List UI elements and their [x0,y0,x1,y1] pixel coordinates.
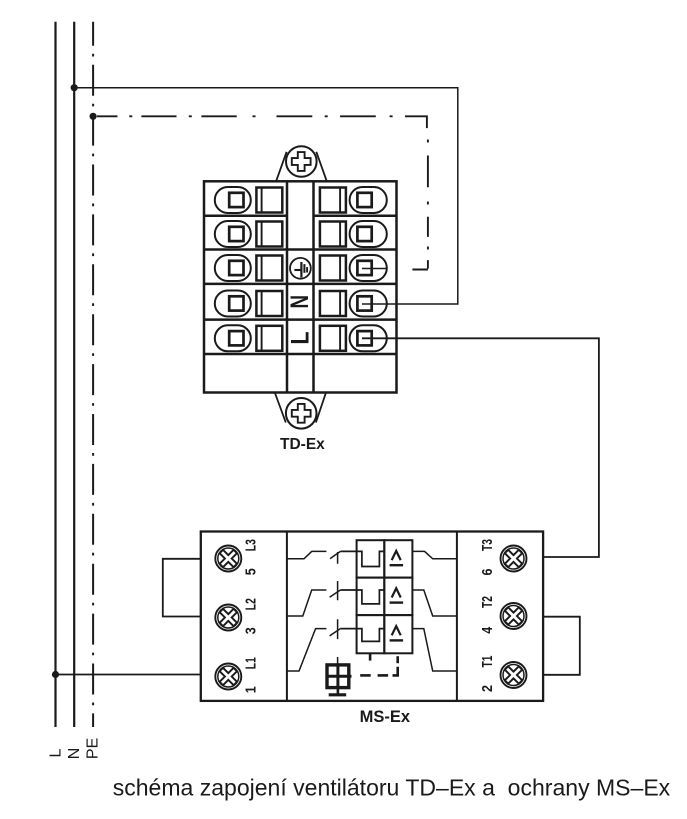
svg-text:1: 1 [242,686,259,693]
svg-text:4: 4 [479,626,496,634]
svg-text:N: N [66,748,83,760]
MS-Ex test button [327,665,352,695]
MS-Ex pole 1 wire in [287,551,327,558]
TD-Ex terminal row 1 right [320,187,387,213]
MS-Ex screw terminal 6 / T3 [499,544,527,572]
svg-text:L: L [48,748,65,757]
junction node on PE [90,113,97,120]
TD-Ex terminal row 4 right [320,291,387,317]
MS-Ex screw terminal 4 / T2 [499,602,527,630]
TD-Ex row dividers [204,216,397,354]
TD-Ex terminal row 2 left [215,221,282,247]
jumper L3-L2 [163,559,201,617]
TD-Ex earth terminal symbol [290,258,311,279]
wire PE to TD-Ex earth terminal (dash-dot) [97,115,428,269]
MS-Ex screw terminal 3 / L2 [214,603,242,631]
overload symbol 2 [390,588,404,602]
wire TD-Ex terminal L to MS-Ex terminal T3 [362,338,599,557]
MS-Ex overload release box 3 [384,615,412,653]
svg-text:PE: PE [85,738,102,759]
MS-Ex contact blade 3 [330,629,341,636]
MS-Ex thermal element box 3 [357,615,385,653]
MS-Ex thermal element 3 (U) [340,629,384,642]
TD-Ex terminal row 2 right [320,221,387,247]
TD-Ex terminal row 4 left [215,291,282,317]
TD-Ex terminal row 3 left [215,255,282,281]
MS-Ex screw terminal 2 / T1 [499,661,527,689]
MS-Ex section dividers [287,532,457,701]
motor protector MS-Ex outline [201,532,543,701]
TD-Ex terminal row 5 left [215,325,282,351]
MS-Ex pole 2 wire out [412,590,457,616]
supply line PE (dash-dot) [92,22,94,727]
svg-text:5: 5 [242,568,259,575]
TD-Ex terminal row 1 left [215,187,282,213]
jumper T2-T1 [543,617,580,675]
MS-Ex contact blade 1 [330,551,340,558]
MS-Ex contact blade 2 [330,590,341,597]
TD-Ex mounting screw top [276,146,327,181]
svg-text:L3: L3 [242,539,259,551]
junction node on N [71,84,78,91]
svg-text:6: 6 [479,569,496,576]
svg-text:3: 3 [242,627,259,634]
MS-Ex pole 3 wire in [287,629,327,671]
svg-text:2: 2 [479,685,496,692]
svg-text:N: N [286,295,314,309]
MS-Ex overload release box 2 [384,578,412,616]
TD-Ex terminal row 5 right [320,325,387,351]
TD-Ex center column [287,181,314,392]
MS-Ex pole 3 wire out [412,629,457,671]
MS-Ex overload release box 1 [384,540,412,577]
svg-text:L: L [287,332,315,345]
wire stub at earth terminal [362,268,386,270]
overload symbol 3 [390,626,404,640]
MS-Ex thermal element box 1 [357,540,385,577]
svg-text:T3: T3 [479,539,496,551]
MS-Ex screw terminal 5 / L3 [214,544,242,572]
MS-Ex pole 2 wire in [287,590,327,616]
TD-Ex terminal row 3 right [320,255,387,281]
wire stub at terminal N [362,303,372,305]
svg-text:T1: T1 [479,656,496,668]
wire N to TD-Ex terminal N [74,88,458,304]
svg-text:T2: T2 [479,596,496,608]
terminal block TD-Ex outline [204,181,397,392]
MS-Ex screw terminal 1 / L1 [214,662,242,690]
svg-text:TD-Ex: TD-Ex [280,436,325,453]
MS-Ex trip line to button (dashed) [360,653,398,675]
MS-Ex thermal element 2 (U) [340,590,384,604]
wire L to MS-Ex terminal 1 [56,674,201,676]
TD-Ex mounting screw bottom [275,393,326,429]
svg-text:L1: L1 [242,657,259,669]
supply line L [54,22,56,727]
svg-text:schéma zapojení ventilátoru TD: schéma zapojení ventilátoru TD–Ex a ochr… [113,775,671,801]
svg-text:MS-Ex: MS-Ex [360,708,411,726]
MS-Ex thermal element 1 (U) [340,551,384,566]
MS-Ex trip linkage (dashed) [337,552,339,665]
svg-text:L2: L2 [242,598,259,610]
junction node on L [52,671,59,678]
supply line N [73,22,75,727]
MS-Ex pole 1 wire out [412,551,457,558]
overload symbol 1 [390,551,404,565]
MS-Ex thermal element box 2 [357,578,385,616]
